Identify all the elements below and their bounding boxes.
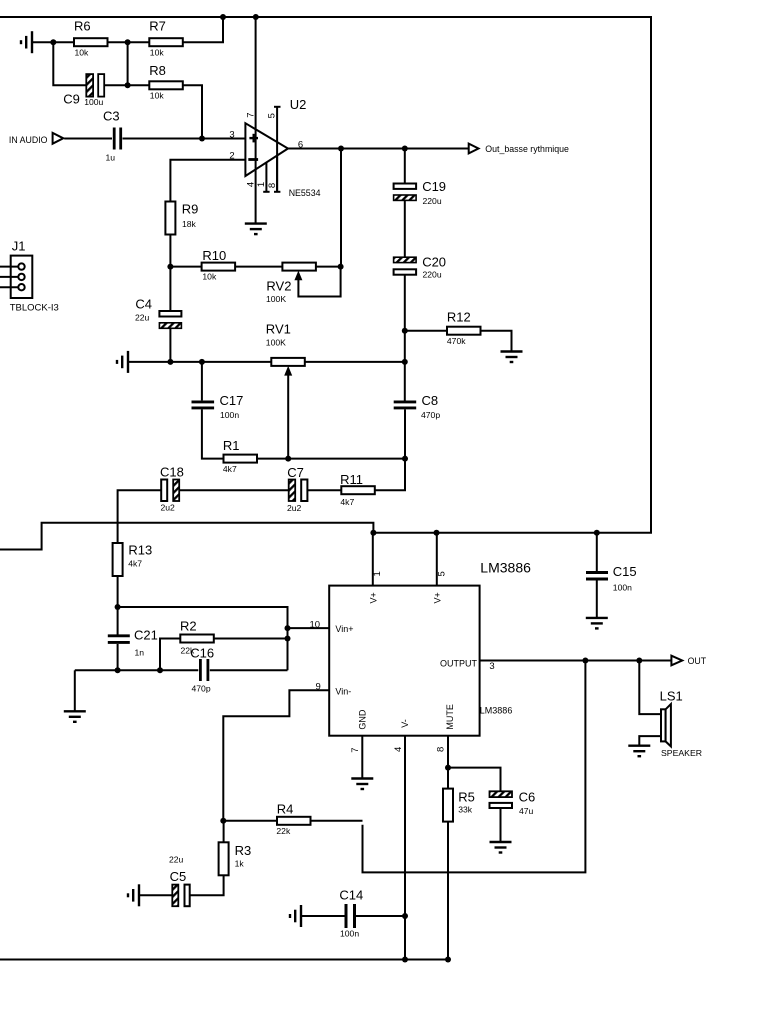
node B2 (C9/R8) — [125, 82, 131, 88]
svg-text:R4: R4 — [277, 802, 294, 817]
node X (output/speaker) — [636, 658, 642, 664]
capacitor C7 — [287, 465, 307, 513]
capacitor C17 — [192, 362, 244, 420]
svg-text:5: 5 — [267, 113, 278, 118]
resistor R12 — [447, 310, 481, 347]
svg-text:220u: 220u — [423, 270, 442, 280]
pin 9 LM3886 label — [316, 682, 321, 693]
pin 2 U2 label — [229, 151, 234, 162]
capacitor C9 — [63, 74, 104, 107]
svg-text:R10: R10 — [202, 248, 226, 263]
capacitor C3 — [103, 109, 121, 163]
ground GL1 top-left — [21, 31, 32, 53]
svg-text:SPEAKER: SPEAKER — [661, 748, 702, 758]
svg-text:10k: 10k — [150, 91, 165, 101]
wire C9 to R8 — [104, 84, 149, 86]
potentiometer RV1 — [266, 322, 305, 459]
resistor R2 — [160, 619, 288, 671]
pin 7 U2 — [246, 17, 257, 224]
wire pin 9 path — [223, 690, 329, 821]
svg-text:5: 5 — [437, 571, 448, 576]
wire R6 to R7 — [108, 41, 150, 43]
resistor R13 — [113, 542, 153, 576]
svg-text:18k: 18k — [182, 219, 197, 229]
svg-text:R3: R3 — [235, 843, 252, 858]
pin 1 U2 — [256, 162, 270, 192]
pin 6 U2 label — [298, 139, 303, 150]
wire speaker drop — [639, 661, 661, 715]
svg-text:R12: R12 — [447, 310, 471, 325]
ground G5 under C6 — [490, 842, 512, 853]
node B (R6/R7/down) — [125, 39, 131, 45]
svg-text:10k: 10k — [202, 271, 217, 281]
wire C6 to ground — [500, 808, 502, 842]
svg-text:C5: C5 — [170, 869, 187, 884]
svg-text:Vin-: Vin- — [335, 686, 351, 696]
resistor R10 — [202, 248, 236, 282]
svg-text:LS1: LS1 — [660, 689, 683, 704]
svg-text:NE5534: NE5534 — [289, 188, 321, 198]
wire R13 down to node N — [117, 576, 119, 635]
wire V+ top rail — [0, 17, 651, 550]
resistor R1 — [223, 438, 257, 474]
pin 5 LM3886 — [437, 533, 448, 586]
capacitor C15 — [586, 533, 637, 618]
svg-text:10k: 10k — [150, 48, 165, 58]
svg-text:100K: 100K — [266, 338, 286, 348]
svg-text:C15: C15 — [613, 564, 637, 579]
wire J1 pin wires — [0, 267, 18, 288]
svg-text:OUT: OUT — [688, 656, 707, 666]
svg-text:4k7: 4k7 — [128, 559, 142, 569]
node M (gnd line end) — [402, 359, 408, 365]
svg-text:1: 1 — [256, 182, 267, 187]
svg-text:C21: C21 — [134, 628, 158, 643]
svg-text:C9: C9 — [63, 92, 80, 107]
ground GL4 at C14 — [290, 905, 301, 927]
ground G7 lower-left — [64, 711, 86, 722]
svg-text:C14: C14 — [339, 888, 363, 903]
pin 7 LM3886 — [350, 736, 362, 779]
potentiometer RV2 — [266, 263, 341, 304]
svg-text:220u: 220u — [423, 196, 442, 206]
node Y (R4/R3/pin9) — [220, 818, 226, 824]
wire R7 up to top rail — [183, 17, 223, 42]
wire pin2 to R9 — [170, 160, 245, 202]
pin 8 LM3886 (MUTE) — [435, 736, 448, 789]
wire feedback vertical — [340, 149, 342, 267]
node V (mute/C6) — [445, 765, 451, 771]
port Out_basse rythmique — [469, 144, 569, 154]
ground G6 under speaker — [628, 746, 650, 757]
svg-text:TBLOCK-I3: TBLOCK-I3 — [10, 303, 59, 314]
resistor R11 — [340, 472, 375, 507]
wire RV2 to node G — [316, 266, 341, 268]
pin 1 LM3886 — [372, 533, 383, 586]
capacitor C5 — [169, 855, 190, 907]
ground G4 under pin7 — [351, 779, 373, 790]
pin 4 LM3886 (V-) — [393, 736, 405, 960]
node top rail junction pin7 — [253, 14, 259, 20]
svg-text:V-: V- — [400, 719, 410, 728]
svg-text:R1: R1 — [223, 438, 240, 453]
wire C18 line left — [118, 490, 162, 543]
wire R9 to node F — [169, 235, 171, 312]
svg-text:10k: 10k — [75, 48, 90, 58]
wire U2 output — [288, 148, 469, 150]
wire left end down to ground — [74, 670, 76, 711]
svg-text:1u: 1u — [106, 153, 116, 163]
node A (gnd/C9) — [50, 39, 56, 45]
node O (pin10 junction) — [285, 625, 291, 631]
wire C4 to gnd line — [169, 328, 171, 362]
wire R11 up to node K — [375, 459, 405, 491]
svg-text:1k: 1k — [235, 859, 245, 869]
node L (R12 tap) — [402, 328, 408, 334]
resistor R5 — [443, 789, 475, 822]
node J (RV1 wiper/R1 line) — [285, 456, 291, 462]
svg-text:22u: 22u — [135, 312, 150, 322]
svg-text:RV1: RV1 — [266, 322, 291, 337]
wire C7 to R11 — [307, 489, 341, 491]
ground GL3 at C5 — [128, 884, 139, 906]
svg-text:2u2: 2u2 — [161, 503, 176, 513]
connector J1 — [10, 239, 59, 314]
svg-text:C20: C20 — [422, 255, 446, 270]
ground G2 under R12 — [501, 352, 523, 363]
wire OUTPUT pin3 — [480, 660, 672, 662]
wire node B down to C9/R8 line — [127, 42, 129, 85]
svg-text:7: 7 — [350, 747, 361, 752]
resistor R7 — [149, 19, 183, 58]
svg-text:RV2: RV2 — [266, 279, 291, 294]
resistor R4 — [276, 802, 310, 837]
svg-text:V+: V+ — [368, 592, 378, 603]
svg-text:470p: 470p — [421, 410, 440, 420]
svg-text:C7: C7 — [287, 465, 304, 480]
wire node Y to R3 — [223, 821, 225, 843]
svg-text:MUTE: MUTE — [445, 704, 455, 730]
speaker LS1 — [660, 689, 702, 759]
IC LM3886 U3 — [329, 559, 531, 735]
node C (C3/R8/pin3) — [199, 136, 205, 142]
wire R3 down to C5 — [190, 875, 224, 895]
pin 3 LM3886 label — [489, 661, 494, 672]
wire C14 right to V- line — [356, 915, 405, 917]
wire node A down to C9 — [53, 42, 86, 85]
svg-text:C18: C18 — [160, 464, 184, 479]
svg-text:LM3886: LM3886 — [480, 559, 531, 575]
capacitor C6 — [490, 790, 536, 817]
node Q (R2 left/y670) — [157, 667, 163, 673]
resistor R6 — [74, 19, 108, 58]
wire feedback down from output — [363, 661, 586, 873]
wire C17 to R1 — [202, 409, 224, 458]
wire C20 down to C8 — [404, 275, 406, 401]
node E (output/C19) — [402, 146, 408, 152]
ground GL2 mid-left — [117, 351, 128, 373]
svg-text:R9: R9 — [182, 202, 199, 217]
wire ground line y362 — [129, 361, 405, 363]
ground G1 under U2 — [245, 224, 267, 235]
svg-text:3: 3 — [489, 661, 494, 672]
svg-text:C4: C4 — [135, 296, 152, 311]
capacitor C14 — [339, 888, 363, 939]
port IN AUDIO — [9, 133, 63, 145]
svg-text:J1: J1 — [12, 239, 26, 254]
wire C21 down — [117, 644, 119, 670]
svg-text:100n: 100n — [613, 583, 632, 593]
svg-text:R8: R8 — [149, 63, 166, 78]
capacitor C16 — [190, 646, 287, 694]
wire C3 to pin 3 — [123, 138, 246, 140]
node T (V+ rail / pin5) — [434, 530, 440, 536]
wire IN to C3 — [64, 138, 112, 140]
resistor R9 — [165, 202, 198, 235]
svg-text:C17: C17 — [220, 393, 244, 408]
node G (RV2/feedback) — [338, 264, 344, 270]
svg-text:IN AUDIO: IN AUDIO — [9, 135, 48, 145]
port OUT — [671, 656, 706, 667]
svg-text:2u2: 2u2 — [287, 503, 302, 513]
svg-text:100u: 100u — [84, 97, 103, 107]
capacitor C19 — [394, 149, 446, 206]
node S (V+ rail / pin1) — [370, 530, 376, 536]
capacitor C21 — [108, 628, 158, 658]
capacitor C4 — [135, 296, 181, 328]
svg-text:47u: 47u — [519, 806, 534, 816]
wire pin10 — [288, 627, 330, 629]
svg-text:GND: GND — [358, 709, 368, 730]
pin 3 U2 label — [229, 129, 234, 140]
wire C18 to C7 — [179, 489, 289, 491]
svg-text:C6: C6 — [519, 790, 536, 805]
node U (V+ rail / C15) — [594, 530, 600, 536]
svg-text:R5: R5 — [458, 790, 475, 805]
capacitor C8 — [394, 393, 441, 420]
capacitor C18 — [160, 464, 184, 512]
svg-text:22u: 22u — [169, 855, 184, 865]
svg-text:R2: R2 — [180, 619, 197, 634]
pin 10 LM3886 label — [310, 619, 321, 630]
svg-text:C3: C3 — [103, 109, 120, 124]
pin 5 U2 — [267, 107, 281, 192]
node H (C4/gnd line) — [167, 359, 173, 365]
wire node L to R12 — [405, 330, 447, 332]
node F (R9/R10/C4) — [167, 264, 173, 270]
node Z (C14/V-) — [402, 913, 408, 919]
svg-text:1: 1 — [372, 571, 383, 576]
svg-text:470k: 470k — [447, 336, 466, 346]
svg-text:4: 4 — [245, 182, 256, 187]
svg-text:R7: R7 — [149, 19, 166, 34]
svg-text:22k: 22k — [276, 826, 291, 836]
svg-text:7: 7 — [246, 113, 257, 118]
wire R1 to node K — [257, 458, 405, 460]
svg-text:33k: 33k — [458, 805, 473, 815]
svg-text:Out_basse rythmique: Out_basse rythmique — [485, 144, 569, 154]
wire C19 to C20 — [404, 200, 406, 257]
svg-text:C8: C8 — [422, 393, 439, 408]
wire R12 to ground — [481, 331, 512, 352]
svg-text:LM3886: LM3886 — [480, 706, 513, 716]
resistor R8 — [149, 63, 183, 101]
wire C5 to ground — [139, 894, 172, 896]
wire C14 left — [302, 915, 345, 917]
svg-text:Vin+: Vin+ — [335, 624, 353, 634]
svg-text:100n: 100n — [340, 929, 359, 939]
wire node Y to R4 — [223, 820, 277, 822]
wire R5 down to bottom rail — [447, 822, 449, 960]
pin 8 U2 — [267, 155, 280, 191]
svg-text:C16: C16 — [190, 646, 214, 661]
svg-text:470p: 470p — [192, 684, 211, 694]
resistor R3 — [219, 842, 252, 875]
svg-text:4k7: 4k7 — [223, 464, 237, 474]
op-amp U2 — [245, 97, 320, 198]
node AB (R5/bottom rail) — [445, 957, 451, 963]
svg-text:100K: 100K — [266, 294, 286, 304]
svg-text:8: 8 — [267, 183, 278, 188]
wire R8 down to pin3 node — [183, 85, 202, 138]
node I (C17/gnd line) — [199, 359, 205, 365]
svg-text:V+: V+ — [433, 592, 443, 603]
svg-text:1n: 1n — [135, 648, 145, 658]
svg-text:OUTPUT: OUTPUT — [440, 658, 478, 668]
svg-text:C19: C19 — [422, 179, 446, 194]
svg-text:4: 4 — [393, 747, 404, 752]
svg-text:U2: U2 — [290, 97, 307, 112]
wire speaker to ground — [639, 736, 661, 746]
svg-text:R6: R6 — [74, 19, 91, 34]
ground G3 under C15 — [586, 618, 608, 629]
capacitor C20 — [394, 255, 446, 280]
wire ground to R6 — [33, 41, 74, 43]
svg-text:8: 8 — [435, 747, 446, 752]
svg-text:R11: R11 — [340, 472, 363, 487]
node W (output/feedback) — [582, 658, 588, 664]
svg-text:4k7: 4k7 — [340, 497, 354, 507]
node P (C21/y670) — [115, 667, 121, 673]
wire R4 right — [311, 820, 363, 822]
wire node N to pin10 — [118, 607, 288, 670]
node AA (V-/bottom rail) — [402, 957, 408, 963]
svg-text:10: 10 — [310, 619, 321, 630]
svg-text:R13: R13 — [128, 542, 152, 557]
node R (R2 right) — [285, 636, 291, 642]
pin 4 U2 — [245, 182, 256, 187]
wire node V to C6 — [448, 768, 501, 792]
svg-text:100n: 100n — [220, 410, 239, 420]
svg-text:3: 3 — [229, 129, 234, 140]
wire C8 to R11 corner — [404, 409, 406, 490]
wire bottom rail — [0, 959, 448, 961]
node D (output/feedback) — [338, 146, 344, 152]
node top rail junction R7 — [220, 14, 226, 20]
wire R10 to RV2 — [235, 266, 282, 268]
node N (R13/C21/R2 line) — [115, 604, 121, 610]
wire node F to R10 — [170, 266, 201, 268]
node K (R1 line/C8 column) — [402, 456, 408, 462]
wire y670 line — [75, 669, 199, 671]
